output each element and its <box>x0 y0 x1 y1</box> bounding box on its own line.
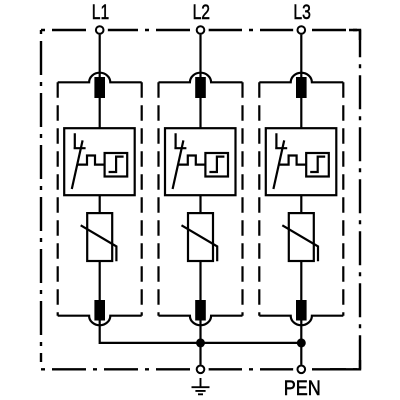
thermal disconnector U1 outline box <box>64 128 135 195</box>
disconnector U2 trip linkage (pulse line) <box>178 156 205 165</box>
svg-text:PEN: PEN <box>284 376 321 400</box>
node ground terminal circle <box>197 366 205 374</box>
terminal block X3a (top, filled) <box>296 77 307 98</box>
node L1 terminal circle <box>96 26 104 34</box>
varistor R1 body <box>87 213 112 261</box>
protection-path box P2 right edge (dashed) <box>241 82 243 315</box>
varistor R1 diagonal stroke <box>81 225 117 261</box>
thermal disconnector U3 outline box <box>266 128 337 195</box>
wire disconnector to varistor R3 <box>300 195 302 214</box>
terminal block X2a (top, filled) <box>195 77 206 98</box>
junction dot at L3/PE bus <box>297 338 306 347</box>
disconnector U2 switch blade <box>173 140 184 189</box>
wire L2 drop from terminal <box>199 35 201 78</box>
protection-path box P3 top edge with bushing arc <box>259 73 343 83</box>
disconnector U1 step symbol <box>109 157 124 172</box>
varistor R3 diagonal stroke <box>282 225 318 261</box>
wire disconnector to varistor R1 <box>99 195 101 214</box>
disconnector U3 trip linkage (pulse line) <box>279 156 306 165</box>
wire disconnector to varistor R2 <box>199 195 201 214</box>
protection-path box P3 right edge (dashed) <box>342 82 344 315</box>
enclosure border corner reinforcement top-right <box>349 30 360 40</box>
thermal disconnector U2 outline box <box>165 128 236 195</box>
svg-text:L2: L2 <box>193 0 210 24</box>
wire varistor to bottom terminal <box>300 261 302 300</box>
terminal block X3b (bottom, filled) <box>296 300 307 321</box>
enclosure dash-dot border right <box>359 30 361 369</box>
enclosure dash-dot border bottom <box>41 368 360 370</box>
node L2 terminal circle <box>197 26 205 34</box>
svg-text:L1: L1 <box>92 0 109 24</box>
wire L3 branch to bus and PEN terminal <box>300 321 302 365</box>
disconnector U3 trip device box <box>306 153 329 177</box>
wire PE bus L2-L3 <box>201 342 302 344</box>
enclosure dash-dot border left <box>40 30 42 362</box>
disconnector U1 trip linkage (pulse line) <box>78 156 105 165</box>
disconnector U3 fixed contact lead <box>275 133 287 148</box>
protection-path box P3 bottom edge with bushing arc <box>259 316 343 326</box>
varistor R2 body <box>188 213 213 261</box>
wire L2 branch to bus and ground terminal <box>199 321 201 365</box>
disconnector U2 fixed contact lead <box>174 133 186 148</box>
wire L1 branch down-turn to PE bus <box>100 321 201 343</box>
disconnector U2 trip device box <box>205 153 228 177</box>
node PEN terminal circle <box>298 366 306 374</box>
disconnector U1 fixed contact lead <box>74 133 86 148</box>
disconnector U1 switch blade <box>72 140 83 189</box>
wire terminal to disconnector U3 <box>300 98 302 129</box>
disconnector U2 step symbol <box>209 157 224 172</box>
node L3 terminal circle <box>298 26 306 34</box>
protection-path box P2 top edge with bushing arc <box>159 73 243 83</box>
junction dot at L2/PE bus <box>196 338 205 347</box>
disconnector U3 step symbol <box>310 157 325 172</box>
varistor R3 body <box>289 213 314 261</box>
terminal gaps in border (white masks) <box>92 22 108 38</box>
ground symbol <box>192 378 210 394</box>
enclosure border corner reinforcement bottom-right <box>330 360 360 369</box>
enclosure dash-dot border top <box>41 29 360 31</box>
protection-path box P3 left edge (dashed) <box>258 82 260 315</box>
wire terminal to disconnector U1 <box>99 98 101 129</box>
protection-path box P2 left edge (dashed) <box>157 82 159 315</box>
disconnector U3 switch blade <box>273 140 284 189</box>
terminal block X2b (bottom, filled) <box>195 300 206 321</box>
varistor R2 diagonal stroke <box>182 225 218 261</box>
protection-path box P1 bottom edge with bushing arc <box>58 316 142 326</box>
protection-path box P1 right edge (dashed) <box>141 82 143 315</box>
wire terminal to disconnector U2 <box>199 98 201 129</box>
protection-path box P2 bottom edge with bushing arc <box>159 316 243 326</box>
wire L1 drop from terminal <box>99 35 101 78</box>
terminal block X1b (bottom, filled) <box>94 300 105 321</box>
wire varistor to bottom terminal <box>199 261 201 300</box>
protection-path box P1 top edge with bushing arc <box>58 73 142 83</box>
protection-path box P1 left edge (dashed) <box>57 82 59 315</box>
wire varistor to bottom terminal <box>99 261 101 300</box>
wire L3 drop from terminal <box>300 35 302 78</box>
terminal block X1a (top, filled) <box>94 77 105 98</box>
disconnector U1 trip device box <box>105 153 128 177</box>
svg-text:L3: L3 <box>293 0 310 24</box>
